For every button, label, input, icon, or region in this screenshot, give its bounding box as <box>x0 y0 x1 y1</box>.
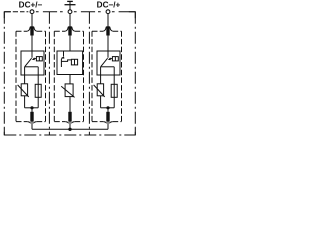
svg-text:DC+/−: DC+/− <box>19 0 43 9</box>
svg-text:DC−/+: DC−/+ <box>97 0 121 9</box>
